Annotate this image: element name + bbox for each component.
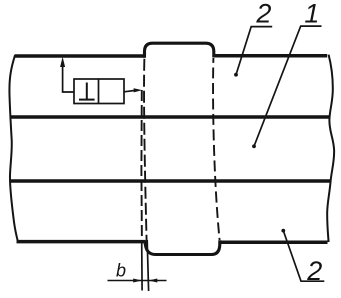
svg-text:2: 2 <box>306 256 322 286</box>
svg-text:1: 1 <box>304 0 319 28</box>
svg-text:b: b <box>116 261 126 281</box>
svg-text:2: 2 <box>255 0 271 28</box>
